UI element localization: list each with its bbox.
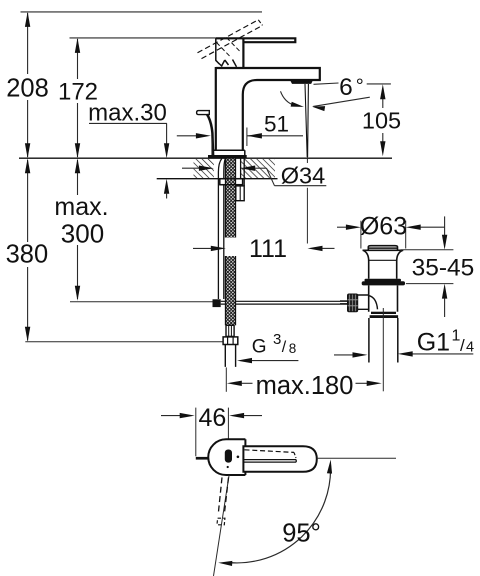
dimension 35-45 bottom reference line	[406, 283, 454, 285]
angle arc for 6 degree spout angle	[281, 91, 296, 106]
second flexible hose right of shank	[241, 159, 245, 186]
plan view: pull rod hole (filled)	[225, 450, 232, 463]
plan view: pivot dot	[237, 456, 240, 459]
dimension max.180 line and arrows	[227, 381, 242, 386]
dimension 208 vertical line	[27, 13, 29, 74]
drain centerline rod	[382, 308, 384, 391]
faucet base block	[213, 150, 245, 155]
arrow 172 top	[75, 38, 80, 53]
arrow 6deg right pointing at stream	[312, 106, 325, 111]
water stream extension line down to 111 dimension	[306, 157, 308, 163]
dimension 35-45 top reference line	[401, 249, 454, 251]
arrow 105 top	[380, 84, 385, 99]
arrow max.30 bottom	[164, 179, 169, 194]
handle lever (solid, horizontal position)	[216, 38, 295, 67]
svg-text:300: 300	[61, 219, 104, 249]
G3/8 threaded pipe end	[225, 345, 235, 367]
arrow 95deg arc bottom	[218, 561, 232, 566]
dimension 46 arrows	[161, 415, 180, 417]
dimension 105 vertical line	[382, 97, 384, 109]
svg-text:208: 208	[6, 75, 49, 103]
svg-text:max.180: max.180	[256, 372, 354, 400]
pull-rod knob behind faucet	[197, 111, 210, 115]
braided supply hose lower part	[226, 256, 236, 325]
arrow 172 bottom	[75, 143, 80, 158]
mounting nut edges over shank	[220, 178, 243, 180]
arrow max.30 top	[164, 143, 169, 158]
svg-text:°: °	[356, 76, 364, 98]
arrow max300 top	[75, 158, 80, 173]
leader diameter 34 diagonal and underline	[267, 168, 275, 186]
leader 6deg label line right segment	[367, 83, 391, 85]
wire: handle-top reference line (172 level)	[70, 37, 216, 39]
svg-text:4: 4	[466, 339, 474, 355]
svg-text:3: 3	[273, 331, 281, 348]
drain lower body	[369, 285, 398, 311]
leader G1 1/4 underline with arrow	[412, 353, 473, 355]
horizontal linkage rod to drain	[221, 300, 348, 302]
svg-text:/: /	[460, 336, 465, 355]
countertop bottom surface line	[157, 178, 278, 180]
second hose crimp block	[236, 186, 244, 201]
svg-text:max.30: max.30	[88, 100, 167, 127]
svg-text:8: 8	[289, 341, 297, 356]
mounting nut under countertop (behind shank)	[220, 179, 243, 185]
drain body joint line	[369, 259, 397, 261]
svg-text:111: 111	[249, 235, 287, 263]
dashed lever hidden edges across handle block	[217, 43, 232, 58]
plan view: rotated lever end cap (dashed)	[217, 518, 225, 525]
svg-text:Ø34: Ø34	[281, 162, 325, 188]
pull rod below counter (double line with top curve)	[218, 159, 225, 300]
arrow 380 bottom	[25, 327, 30, 342]
wire: swivel axis horizontal centerline	[317, 457, 396, 459]
wire: top reference line (208 level)	[21, 11, 263, 13]
drain O-ring seal (filled)	[365, 279, 402, 282]
countertop hatch left of hole	[194, 159, 214, 178]
pull-rod slanting down to base	[207, 114, 213, 155]
wire: swivel axis rotated radial line	[214, 475, 230, 576]
arrow 380 top	[25, 158, 30, 173]
svg-text:G: G	[252, 337, 267, 358]
95 degree swing arc	[228, 464, 331, 563]
drain side inlet pipe	[358, 295, 378, 309]
svg-text:Ø63: Ø63	[360, 213, 407, 241]
dimension max.300 vertical line	[77, 160, 79, 195]
arrow 111 left	[211, 246, 226, 251]
leader 6deg label line left segment	[314, 83, 339, 84]
svg-text:46: 46	[198, 404, 226, 432]
linkage rod stub into knurled nut	[340, 300, 348, 302]
leader 6deg tilted line	[313, 97, 370, 106]
svg-text:35-45: 35-45	[412, 255, 475, 282]
svg-text:6: 6	[339, 74, 353, 101]
plan view: lever hidden edge (dashed)	[245, 450, 295, 453]
leader G3/8 underline with arrow	[251, 360, 299, 362]
plan view: pull rod stub (filled)	[196, 457, 209, 460]
svg-text:G1: G1	[417, 329, 450, 357]
arrow 111 right	[308, 246, 323, 251]
svg-text:380: 380	[6, 241, 49, 269]
dimension 111 line left	[193, 247, 211, 249]
G1 1/4 tailpipe walls	[369, 318, 398, 363]
leader max.30 underline	[89, 122, 167, 124]
handle lever raised position (dashed)	[198, 20, 259, 53]
countertop hatch right of hole	[240, 159, 275, 178]
countertop top surface line	[19, 157, 392, 159]
tailpipe coupling rings (filled)	[371, 312, 396, 314]
plan view: lever rotated position (dashed)	[218, 477, 222, 513]
dimension diameter 34 arrows at hole	[182, 167, 199, 169]
arrow 95deg arc top	[327, 460, 332, 474]
arrow 105 bottom	[380, 141, 385, 156]
svg-text:95°: 95°	[282, 520, 321, 548]
plan view: small screw dot	[227, 466, 229, 468]
wire: pull-rod linkage reference line	[70, 301, 213, 303]
dimension 172 vertical line	[77, 39, 79, 79]
ball joint on pull rod (filled)	[213, 299, 221, 307]
faucet base flange (filled)	[208, 155, 247, 158]
pop-up waste cap	[368, 246, 397, 250]
handle block body	[216, 38, 237, 67]
svg-text:105: 105	[362, 108, 401, 134]
plan view: lever handle pill shape (white over body)	[243, 446, 316, 472]
plan view: lever arm slot	[244, 460, 296, 463]
plan view: faucet body (rounded left)	[208, 439, 245, 475]
aerator at spout outlet (filled)	[290, 80, 313, 84]
dimension diameter 63 arrows	[337, 226, 346, 228]
hose connector nut	[223, 337, 238, 345]
dimension 46 extension lines	[195, 408, 197, 457]
svg-text:51: 51	[264, 112, 289, 137]
dimension 380 vertical line	[27, 160, 29, 242]
dimension 35-45 vertical line and arrows	[444, 216, 446, 235]
faucet body and spout outline	[216, 67, 320, 150]
arrow tailpipe OD left	[334, 354, 353, 356]
svg-text:/: /	[282, 339, 287, 356]
arrow 208 top	[25, 12, 30, 27]
knurled adjustment nut (filled with ridges)	[348, 294, 358, 312]
hose crimp sleeve	[226, 325, 234, 336]
dimension 51 line and arrows	[177, 135, 197, 137]
drain upper body with concave neck	[363, 250, 404, 278]
dimension diameter 63 extension lines	[360, 221, 362, 249]
arrow 6deg arc end	[291, 102, 304, 107]
water stream from spout	[305, 84, 308, 157]
arrow max300 bottom	[75, 286, 80, 301]
extension line 51 right	[246, 128, 248, 147]
svg-text:max.: max.	[54, 193, 108, 221]
braided supply hose / threaded shank upper part	[226, 159, 236, 238]
wire: 380 reference line at hose connector level	[25, 341, 223, 343]
arrow 208 bottom	[25, 143, 30, 158]
hose centerline extension for max.180	[225, 367, 227, 391]
